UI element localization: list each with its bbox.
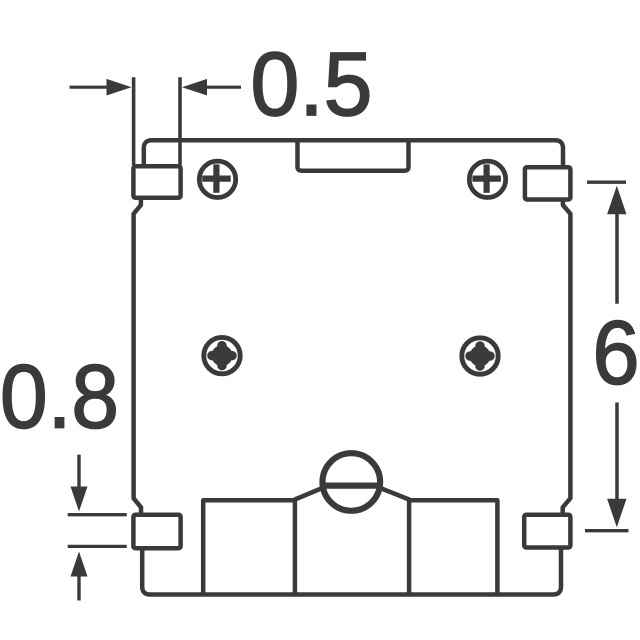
svg-text:0.5: 0.5 <box>251 35 373 135</box>
svg-text:0.8: 0.8 <box>0 348 119 448</box>
svg-text:6: 6 <box>593 304 640 404</box>
